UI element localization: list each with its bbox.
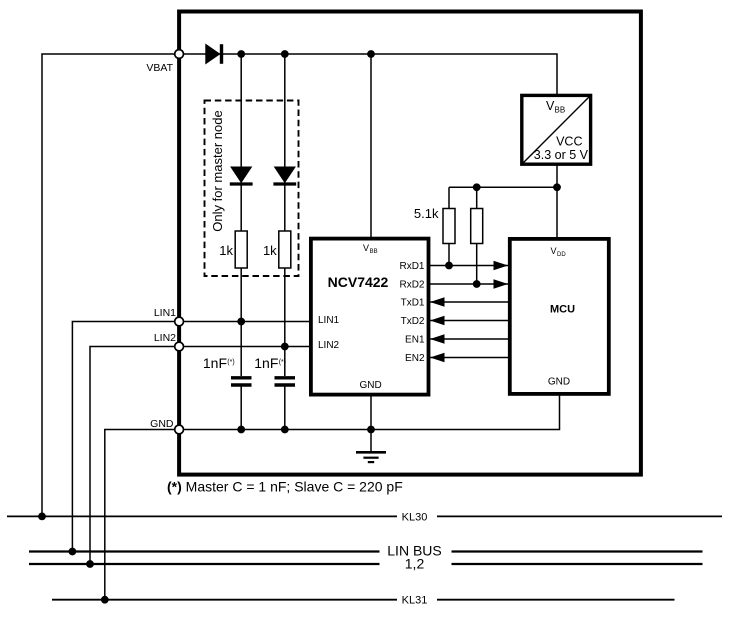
node: junction RxD2 / R4 (473, 280, 481, 288)
diode D2 (master pull-up branch 1) (230, 167, 253, 184)
ECU module boundary box (179, 12, 641, 475)
label C1 value 1nF(*) (203, 355, 235, 371)
svg-text:BB: BB (555, 106, 566, 115)
svg-text:TxD2: TxD2 (401, 316, 425, 327)
label C2 value 1nF(*) (254, 355, 286, 371)
node: junction top rail / branch 1 (237, 50, 245, 58)
footnote: capacitor values (167, 479, 403, 495)
svg-text:1k: 1k (263, 243, 277, 258)
svg-text:LIN1: LIN1 (318, 315, 340, 326)
wire: RxD2 signal with arrow to MCU (429, 279, 510, 289)
wire: RxD1 signal with arrow to MCU (429, 261, 510, 271)
node: junction LIN2 / branch 2 (281, 343, 289, 351)
svg-text:GND: GND (359, 380, 381, 391)
node: junction LIN bus 1 / LIN1 harness (69, 548, 77, 556)
svg-text:(*) Master C = 1 nF; Slave C =: (*) Master C = 1 nF; Slave C = 220 pF (167, 479, 403, 495)
terminal VBAT (175, 50, 184, 59)
wire: LIN1 from terminal to NCV7422 (183, 321, 311, 323)
node: junction LIN1 / branch 1 (237, 318, 245, 326)
label LIN1 (154, 307, 176, 319)
svg-text:V: V (363, 243, 369, 253)
dashed box: only for master node (205, 101, 299, 277)
diode D3 (master pull-up branch 2) (273, 167, 296, 184)
svg-text:VBAT: VBAT (146, 62, 173, 74)
svg-text:Only for master node: Only for master node (210, 110, 225, 231)
label KL30 (402, 512, 428, 524)
svg-text:NCV7422: NCV7422 (328, 274, 389, 290)
node: junction rail / regulator output (553, 183, 561, 191)
label GND terminal (150, 418, 174, 430)
svg-text:1nF: 1nF (254, 355, 278, 371)
svg-text:5.1k: 5.1k (414, 206, 439, 221)
svg-text:V: V (551, 246, 557, 256)
label R2 value 1k (263, 243, 277, 258)
resistor R2 1k (279, 231, 291, 268)
resistor R1 1k (235, 231, 247, 268)
svg-text:RxD1: RxD1 (399, 261, 424, 272)
svg-text:GND: GND (548, 377, 570, 388)
svg-text:1,2: 1,2 (405, 556, 425, 572)
svg-text:KL30: KL30 (402, 512, 428, 524)
wire: regulator output to MCU VDD (556, 164, 558, 239)
svg-text:LIN2: LIN2 (318, 340, 340, 351)
node: junction LIN bus 2 / LIN2 harness (86, 560, 94, 568)
wire: NCV7422 GND pin drop (370, 395, 372, 452)
terminal LIN2 (175, 342, 184, 351)
terminal LIN1 (175, 317, 184, 326)
svg-text:LIN2: LIN2 (154, 332, 176, 344)
svg-text:MCU: MCU (550, 304, 575, 316)
label LIN2 (154, 332, 176, 344)
svg-text:KL31: KL31 (402, 595, 428, 607)
svg-text:1nF: 1nF (203, 355, 227, 371)
terminal GND (175, 425, 184, 434)
resistor R4 5.1k (471, 187, 483, 284)
node: junction rail / R4 (473, 183, 481, 191)
ground symbol (356, 452, 386, 462)
label LIN BUS 1,2 (405, 556, 425, 572)
svg-text:LIN1: LIN1 (154, 307, 176, 319)
svg-text:(*): (*) (279, 359, 286, 366)
svg-text:VCC: VCC (556, 135, 582, 149)
capacitor C2 1nF (275, 347, 296, 430)
wire: GND rail from terminal to MCU GND (183, 394, 559, 430)
svg-text:EN1: EN1 (405, 335, 425, 346)
node: junction GND rail / NCV GND (367, 426, 375, 434)
wire: VBAT harness left and down to KL30 (42, 54, 175, 516)
node: junction GND rail / C2 (281, 426, 289, 434)
wire: GND harness left and down to KL31 (105, 430, 175, 600)
voltage regulator block VBB to VCC (522, 95, 591, 164)
svg-text:TxD1: TxD1 (401, 298, 425, 309)
wire: EN1 signal with arrow to NCV7422 (429, 334, 510, 344)
wire: branch 1 vertical (top rail to LIN1) (240, 54, 242, 322)
wire: EN2 signal with arrow to NCV7422 (429, 353, 510, 363)
svg-text:EN2: EN2 (405, 353, 425, 364)
svg-text:DD: DD (557, 252, 566, 258)
capacitor C1 1nF (231, 322, 252, 430)
svg-text:GND: GND (150, 418, 174, 430)
wire: VBAT top rail to VBB regulator (183, 54, 557, 95)
wire: NCV7422 VBB pin drop (370, 54, 372, 239)
bus line KL31 (52, 599, 675, 601)
svg-text:1k: 1k (219, 243, 233, 258)
IC U1 NCV7422 LIN transceiver (311, 239, 429, 395)
label R1 value 1k (219, 243, 233, 258)
wire: TxD2 signal with arrow to NCV7422 (429, 316, 510, 326)
svg-text:3.3 or 5 V: 3.3 or 5 V (534, 148, 589, 162)
svg-text:(*): (*) (227, 359, 234, 366)
node: junction top rail / branch 2 (281, 50, 289, 58)
wire: branch 2 vertical (top rail to LIN2) (284, 54, 286, 347)
node: junction KL31 / GND harness (101, 596, 109, 604)
bus line LIN BUS 1 (29, 550, 703, 552)
wire: TxD1 signal with arrow to NCV7422 (429, 297, 510, 307)
node: junction RxD1 / R3 (445, 262, 453, 270)
node: junction top rail / NCV7422 VBB pin (367, 50, 375, 58)
label KL31 (402, 595, 428, 607)
IC U2 MCU (510, 239, 609, 394)
node: junction KL30 / VBAT harness (38, 513, 46, 521)
wire: LIN1 harness left and down to LIN bus (72, 322, 175, 552)
wire: 5.1k pull-up rail (449, 186, 557, 188)
diode D1 (series reverse battery protection) (206, 44, 222, 64)
wire: LIN2 from terminal to NCV7422 (183, 346, 311, 348)
label VBAT (146, 62, 173, 74)
label: Only for master node (rotated) (210, 110, 225, 231)
label R3 R4 value 5.1k (414, 206, 439, 221)
bus line KL30 (7, 515, 722, 517)
node: junction GND rail / C1 (237, 426, 245, 434)
svg-text:BB: BB (370, 249, 378, 255)
resistor R3 5.1k (443, 187, 455, 265)
bus line LIN BUS 2 (29, 563, 703, 565)
svg-text:RxD2: RxD2 (399, 280, 424, 291)
label LIN BUS (387, 543, 441, 559)
wire: LIN2 harness left and down to LIN bus (90, 347, 175, 565)
